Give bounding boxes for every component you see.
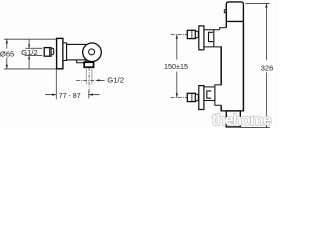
bottom union lower line [204, 100, 215, 102]
bar top cap [226, 2, 243, 28]
extension tick at outlet axis [88, 91, 90, 99]
dim 150±15 lower segment [176, 72, 178, 98]
dim 77-87 left arrow [45, 94, 56, 96]
dim 150±15 upper segment [176, 35, 178, 60]
extension line top (plate top, Ø65) [4, 38, 56, 40]
bottom outlet centerline [171, 97, 202, 99]
knob circle inner [89, 49, 95, 55]
svg-text:thehome: thehome [212, 112, 272, 129]
bottom wall flange [199, 86, 204, 110]
bar bottom edge [221, 110, 245, 112]
wall plate (escutcheon) [57, 38, 63, 68]
bottom boss step [215, 101, 221, 106]
svg-text:77 - 87: 77 - 87 [59, 93, 81, 100]
leader arrow G1/2 outlet [97, 79, 105, 81]
top union nut [187, 30, 195, 38]
label Ø65 [0, 49, 15, 59]
326 bottom extension line [241, 127, 270, 129]
knob circle outer [83, 43, 102, 62]
extension line bottom (plate bottom, Ø65) [4, 68, 56, 70]
top inlet boss left edge [213, 30, 215, 47]
dimension line G1/2 upper arrow [28, 39, 30, 48]
326 top extension line [246, 2, 270, 4]
valve body [67, 44, 87, 60]
outlet nut [84, 62, 93, 67]
outlet wing right [92, 61, 94, 62]
dimension line G1/2 lower arrow [28, 56, 30, 69]
dim 326 lower segment [265, 72, 267, 127]
svg-text:326: 326 [261, 63, 274, 72]
dim 77-87 right arrow [89, 94, 100, 96]
union cap [51, 48, 53, 54]
bottom union upper line [204, 86, 215, 88]
top union cap [195, 31, 198, 37]
outlet boss under body [77, 60, 85, 63]
outlet vertical centerline [88, 67, 90, 91]
bottom outlet boss left edge [214, 87, 216, 101]
top wall flange [199, 26, 204, 50]
dimension line Ø65 [6, 39, 8, 69]
svg-text:G1/2: G1/2 [107, 75, 124, 84]
svg-text:150±15: 150±15 [164, 62, 188, 71]
top union slot [209, 32, 213, 41]
bottom union slot [207, 91, 211, 98]
top union lower line [204, 46, 222, 48]
outlet horizontal centerline [76, 80, 94, 82]
bottom outlet block [226, 111, 240, 127]
outlet nut facet gap [85, 64, 93, 66]
bottom nut facet line [191, 94, 193, 102]
dim 326 upper segment [265, 3, 267, 60]
bar cap tab [224, 10, 226, 13]
svg-text:Ø65: Ø65 [0, 49, 14, 58]
top inlet centerline [171, 34, 202, 36]
bar left edge [220, 47, 222, 85]
union nut (wall side) [44, 48, 51, 57]
bottom union nut [187, 93, 195, 101]
extension line from wall plate [55, 69, 57, 99]
hose outline left (phantom) [85, 68, 87, 85]
bar left edge lower segment [220, 105, 222, 111]
connector [63, 43, 67, 61]
extension line G1/2 lower [25, 55, 43, 57]
svg-text:G1/2: G1/2 [21, 48, 38, 57]
bottom union cap [195, 94, 198, 100]
top inlet shelf step [220, 28, 227, 30]
nut inner facet line [48, 48, 50, 56]
hose outline right (phantom) [91, 68, 93, 85]
extension line G1/2 upper [25, 47, 42, 49]
bottom inlet shelf step [215, 85, 221, 87]
top union upper line [204, 29, 220, 31]
outlet wing left [85, 61, 87, 63]
bar right edge [242, 21, 244, 111]
label G1/2 [20, 48, 38, 57]
top nut facet line [191, 31, 193, 39]
